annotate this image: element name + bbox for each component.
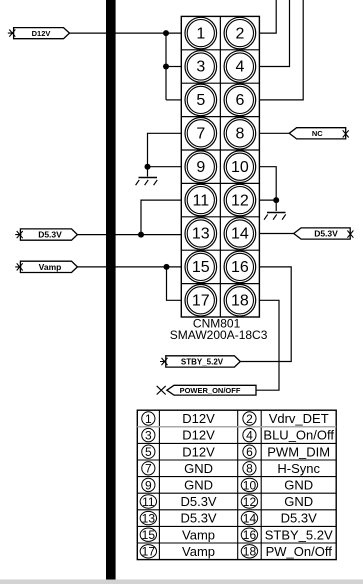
pin table row divider 4 <box>137 476 336 478</box>
pin table row divider 8 <box>137 542 336 544</box>
svg-text:2: 2 <box>246 412 253 426</box>
svg-text:8: 8 <box>235 126 244 143</box>
svg-text:7: 7 <box>196 126 205 143</box>
svg-text:GND: GND <box>284 494 313 509</box>
wire stub to right ground <box>275 200 277 211</box>
svg-text:1: 1 <box>145 412 152 426</box>
wire pin 7 to ground <box>148 133 182 176</box>
pin 12 <box>224 184 256 216</box>
svg-text:14: 14 <box>243 511 257 525</box>
svg-text:13: 13 <box>142 511 156 525</box>
bottom gray band <box>0 580 363 584</box>
svg-text:GND: GND <box>184 461 213 476</box>
table pin number 6 <box>243 445 256 459</box>
svg-text:POWER_ON/OFF: POWER_ON/OFF <box>180 386 241 395</box>
svg-text:16: 16 <box>243 528 257 542</box>
connector row divider 3 <box>181 116 259 118</box>
svg-text:D5.3V: D5.3V <box>180 494 216 509</box>
svg-text:11: 11 <box>142 495 155 509</box>
svg-text:H-Sync: H-Sync <box>277 461 320 476</box>
pin table row divider 3 <box>137 459 336 461</box>
svg-text:15: 15 <box>142 528 156 542</box>
svg-text:D5.3V: D5.3V <box>281 511 317 526</box>
connector row divider 5 <box>181 182 259 184</box>
table pin number 14 <box>241 511 257 525</box>
svg-text:GND: GND <box>284 478 313 493</box>
junction dot gnd right <box>273 197 279 203</box>
svg-text:5: 5 <box>145 445 152 459</box>
ground symbol left <box>136 178 158 186</box>
svg-text:9: 9 <box>196 159 205 176</box>
table pin number 1 <box>142 412 155 426</box>
junction dot Vamp <box>164 264 170 270</box>
wire D12V vertical branch <box>165 33 167 100</box>
net flag D12V <box>8 28 70 39</box>
pin table row divider 5 <box>137 492 336 494</box>
wire pin 4 up <box>259 0 289 67</box>
connector row divider 1 <box>181 49 259 51</box>
wire Vamp to pin 15 <box>77 266 181 268</box>
table pin number 9 <box>142 478 155 492</box>
svg-text:7: 7 <box>145 462 152 476</box>
wire Vamp vertical to pin 17 <box>167 267 182 300</box>
table pin number 17 <box>140 545 156 559</box>
ground symbol right <box>264 213 286 220</box>
svg-text:Vdrv_DET: Vdrv_DET <box>269 411 329 426</box>
svg-text:6: 6 <box>246 445 253 459</box>
table pin number 18 <box>241 545 257 559</box>
svg-text:13: 13 <box>192 226 210 243</box>
pin 5 <box>185 84 217 116</box>
connector center divider <box>219 16 221 317</box>
wire pin 10 down <box>259 167 276 200</box>
svg-text:4: 4 <box>235 59 244 76</box>
pin table col divider 3 <box>260 410 262 559</box>
pin 15 <box>185 251 217 283</box>
svg-text:16: 16 <box>231 259 249 276</box>
svg-text:10: 10 <box>243 478 257 492</box>
svg-text:10: 10 <box>231 159 249 176</box>
connector row divider 8 <box>181 283 259 285</box>
wire pin 12 <box>259 199 276 201</box>
wire D5.3V to pin 13 <box>77 234 181 236</box>
junction dot pin11/D5.3V <box>138 232 144 238</box>
svg-text:17: 17 <box>192 293 210 310</box>
svg-text:PW_On/Off: PW_On/Off <box>266 544 333 559</box>
net flag STBY_5.2V <box>160 356 240 367</box>
svg-text:1: 1 <box>196 25 205 42</box>
svg-text:4: 4 <box>246 428 253 442</box>
svg-text:Vamp: Vamp <box>182 544 215 559</box>
connector CNM801 outline <box>181 16 259 317</box>
svg-text:9: 9 <box>145 478 152 492</box>
junction dot gnd left <box>145 164 151 170</box>
connector row divider 4 <box>181 149 259 151</box>
svg-text:SMAW200A-18C3: SMAW200A-18C3 <box>170 328 268 342</box>
pin 13 <box>185 218 217 250</box>
junction dot pin3 branch <box>163 64 169 70</box>
svg-text:17: 17 <box>142 545 156 559</box>
pin table row divider 2 <box>137 442 336 444</box>
wire pin 18 to POWER_ON/OFF <box>256 300 279 390</box>
svg-text:D5.3V: D5.3V <box>314 228 338 238</box>
svg-text:D12V: D12V <box>182 444 215 459</box>
net flag D5.3V (left) <box>15 229 77 240</box>
pin 8 <box>224 118 256 150</box>
table pin number 8 <box>243 462 256 476</box>
svg-text:8: 8 <box>246 462 253 476</box>
table pin number 16 <box>241 528 257 542</box>
svg-text:STBY_5.2V: STBY_5.2V <box>265 527 333 542</box>
pin 4 <box>224 51 256 83</box>
svg-text:NC: NC <box>312 129 323 138</box>
junction dot pin1 branch <box>163 30 169 36</box>
connector row divider 7 <box>181 249 259 251</box>
net flag NC <box>289 128 349 139</box>
wire pin 6 up <box>259 0 303 100</box>
pin 9 <box>185 151 217 183</box>
svg-text:STBY_5.2V: STBY_5.2V <box>181 357 224 366</box>
pin 7 <box>185 118 217 150</box>
net flag D5.3V (right) <box>294 228 354 239</box>
pin 2 <box>224 17 256 49</box>
table pin number 3 <box>142 428 155 442</box>
svg-text:5: 5 <box>196 92 205 109</box>
connector CNM801 body <box>181 16 259 317</box>
wire to pin 5 <box>166 99 181 101</box>
svg-text:D12V: D12V <box>182 428 215 443</box>
table pin number 11 <box>140 495 156 509</box>
power bus bar <box>106 0 116 580</box>
pin 11 <box>185 184 217 216</box>
svg-text:6: 6 <box>235 92 244 109</box>
pin 10 <box>224 151 256 183</box>
svg-text:3: 3 <box>145 428 152 442</box>
svg-text:3: 3 <box>196 59 205 76</box>
svg-text:18: 18 <box>243 545 257 559</box>
wire pin 16 to STBY_5.2V <box>240 267 291 362</box>
svg-text:D12V: D12V <box>182 411 215 426</box>
wire pin 11 down to D5.3V net <box>141 200 181 235</box>
svg-text:D5.3V: D5.3V <box>180 511 216 526</box>
svg-text:12: 12 <box>243 495 257 509</box>
connector row divider 2 <box>181 82 259 84</box>
table pin number 15 <box>140 528 156 542</box>
svg-text:2: 2 <box>235 25 244 42</box>
pin table <box>137 410 336 559</box>
net flag Vamp <box>15 261 77 272</box>
wire pin 2 up <box>259 0 276 33</box>
pin 1 <box>185 17 217 49</box>
table pin number 10 <box>241 478 257 492</box>
wire pin 9 <box>148 166 182 168</box>
table pin number 13 <box>140 511 156 525</box>
svg-text:Vamp: Vamp <box>39 262 62 272</box>
pin table outline <box>137 410 336 559</box>
pin 16 <box>224 251 256 283</box>
svg-text:18: 18 <box>231 293 249 310</box>
pin 6 <box>224 84 256 116</box>
wire pin 14 to D5.3V right <box>259 233 293 235</box>
svg-text:PWM_DIM: PWM_DIM <box>267 444 330 459</box>
table pin number 7 <box>142 462 155 476</box>
svg-text:Vamp: Vamp <box>182 527 215 542</box>
svg-text:GND: GND <box>184 478 213 493</box>
svg-text:12: 12 <box>231 192 249 209</box>
pin 17 <box>185 285 217 317</box>
pin 18 <box>224 285 256 317</box>
pin 3 <box>185 51 217 83</box>
pin table row divider 7 <box>137 525 336 527</box>
svg-text:15: 15 <box>192 259 210 276</box>
svg-text:D5.3V: D5.3V <box>38 230 62 240</box>
pin table row divider 6 <box>137 509 336 511</box>
pin 14 <box>224 218 256 250</box>
svg-text:D12V: D12V <box>32 29 51 38</box>
svg-text:14: 14 <box>231 226 249 243</box>
wire to pin 3 <box>166 66 181 68</box>
pin table col divider 1 <box>158 410 160 559</box>
wire pin 8 to NC <box>259 132 289 134</box>
svg-text:11: 11 <box>192 192 209 209</box>
connector row divider 6 <box>181 216 259 218</box>
pin table col divider 2 <box>237 410 239 559</box>
svg-text:BLU_On/Off: BLU_On/Off <box>263 428 334 443</box>
wire D12V to pin 1 <box>70 32 182 34</box>
pin table row divider 1 <box>137 426 336 428</box>
table pin number 5 <box>142 445 155 459</box>
table pin number 2 <box>243 412 256 426</box>
table pin number 4 <box>243 428 256 442</box>
net flag POWER_ON/OFF <box>157 385 256 395</box>
table pin number 12 <box>241 495 257 509</box>
